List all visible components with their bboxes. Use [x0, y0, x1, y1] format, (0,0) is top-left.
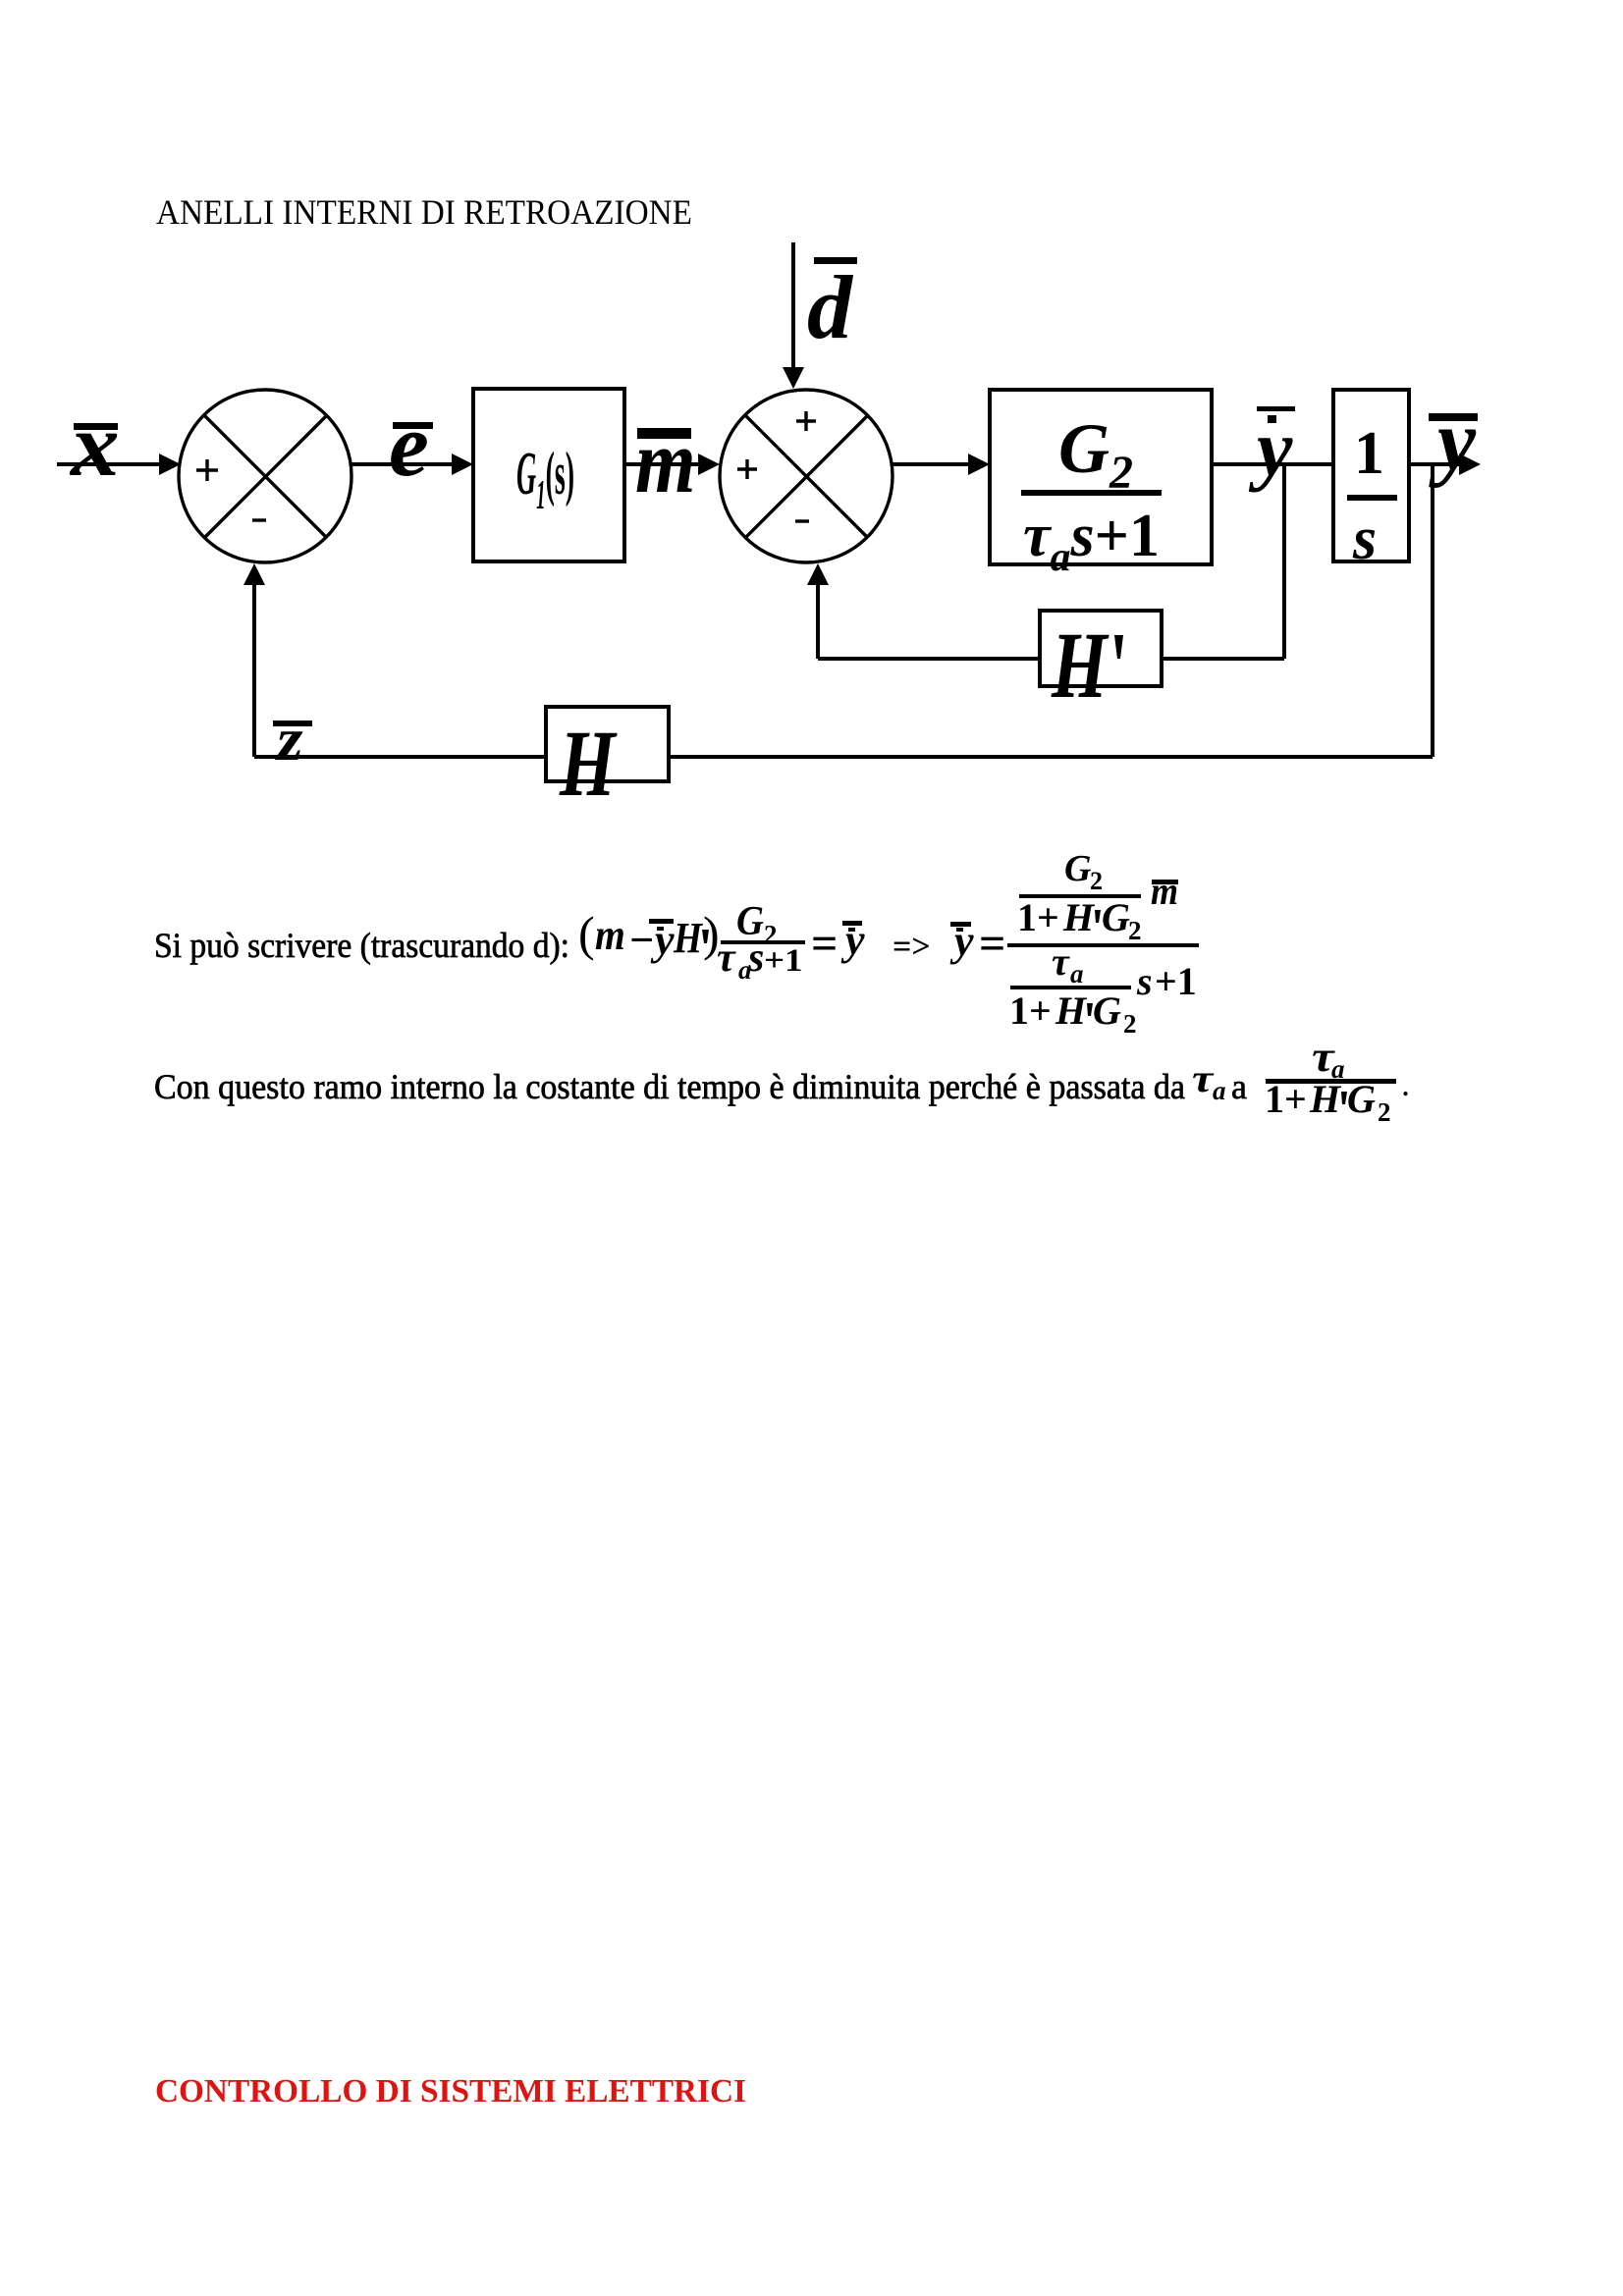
summing junction S1 [179, 390, 352, 562]
block H' [1040, 611, 1162, 686]
eq1 ydotbar 2 [840, 916, 865, 964]
svg-text:s: s [1352, 506, 1377, 572]
wire: x input arrow into S1 [57, 454, 181, 475]
wire: H' tap vertical [1282, 464, 1286, 659]
label x-bar [69, 395, 120, 495]
svg-text:τ: τ [1052, 939, 1070, 984]
svg-text:z: z [275, 707, 303, 774]
wire: output y [1409, 454, 1481, 475]
wire: S2 to G2 [893, 454, 990, 475]
svg-text:2: 2 [1378, 1097, 1391, 1127]
svg-text:s: s [1136, 959, 1153, 1003]
wire: arrow into S2 bottom [807, 563, 829, 659]
svg-text:H: H [673, 914, 703, 961]
svg-text:a: a [1070, 959, 1084, 988]
svg-text:m: m [595, 912, 625, 959]
label e-bar [389, 395, 433, 495]
svg-text:Si può scrivere (trascurando d: Si può scrivere (trascurando d): [154, 926, 569, 965]
svg-text:a: a [1231, 1067, 1247, 1106]
svg-text:y: y [1429, 394, 1477, 489]
svg-text:τ: τ [717, 935, 736, 981]
summing junction S2 [720, 390, 893, 562]
eq1 fraction den [717, 935, 803, 985]
integrator bar [1347, 495, 1397, 501]
S2 plus left [737, 459, 757, 479]
svg-text:d: d [807, 257, 854, 357]
svg-text:2: 2 [1090, 867, 1103, 895]
wire: outer feedback horizontal [254, 755, 1433, 759]
eq1 ydotbar 1 [649, 916, 675, 964]
eq1 fraction bar [721, 940, 805, 944]
wire: d input arrow into S2 top [783, 242, 804, 389]
block G1 [473, 389, 624, 561]
final fraction denominator [1265, 1077, 1391, 1127]
svg-text:a: a [1213, 1076, 1226, 1105]
eq1 fraction G2 num [736, 898, 778, 949]
block integrator 1/s [1333, 390, 1409, 561]
svg-text:.: . [1401, 1064, 1410, 1103]
big fraction numerator m-bar [1151, 870, 1178, 913]
G2 fraction bar [1021, 490, 1162, 496]
svg-text:1+: 1+ [1265, 1077, 1307, 1121]
svg-text:H: H [1309, 1077, 1342, 1121]
svg-text:e: e [389, 395, 429, 495]
wire: arrow into S1 bottom [243, 563, 265, 757]
label m-bar [635, 412, 696, 512]
wire: m from G1 to S2 [624, 454, 720, 475]
wire: outer tap vertical [1431, 464, 1434, 757]
svg-text:Con questo ramo interno la cos: Con questo ramo interno la costante di t… [154, 1067, 1185, 1106]
S1 minus [252, 518, 266, 521]
svg-text:y: y [1248, 403, 1293, 493]
svg-text:=: = [979, 918, 1005, 970]
S2 plus top [796, 411, 816, 431]
svg-text:1+: 1+ [1009, 988, 1052, 1033]
svg-text:G: G [1102, 895, 1130, 939]
eq1 ydotbar 3 [949, 917, 974, 965]
svg-text:H: H [559, 713, 618, 817]
S2 cross [745, 415, 868, 538]
S1 plus [196, 459, 218, 481]
final fraction numerator tau_a [1312, 1034, 1345, 1084]
S2 minus bottom [795, 519, 809, 522]
eq1 H prime [673, 914, 709, 961]
big fraction denominator: tau_a over 1+H'G2, then s+1 [1052, 939, 1084, 988]
svg-text:H: H [1062, 895, 1096, 939]
svg-text:G: G [1347, 1077, 1376, 1121]
svg-text:ANELLI INTERNI DI RETROAZIONE: ANELLI INTERNI DI RETROAZIONE [156, 192, 692, 232]
wire: e from S1 to G1 [352, 454, 473, 475]
S1 cross [204, 415, 327, 538]
svg-text:=>: => [893, 929, 931, 965]
tau_a inline [1192, 1057, 1226, 1105]
svg-text:1+: 1+ [1017, 895, 1059, 939]
wire: H' feedback horizontal [818, 657, 1284, 661]
svg-text:G: G [1064, 848, 1092, 889]
svg-text:x: x [69, 395, 120, 495]
svg-text:H: H [1051, 614, 1109, 719]
svg-text:2: 2 [1128, 916, 1142, 945]
svg-text:G1(s): G1(s) [516, 441, 574, 518]
svg-text:H: H [1055, 988, 1088, 1033]
label y-bar output [1429, 394, 1478, 489]
block G2 [990, 390, 1212, 564]
svg-text:+1: +1 [764, 942, 803, 979]
svg-text:2: 2 [1123, 1009, 1137, 1039]
svg-text:τ: τ [1192, 1057, 1215, 1100]
block H [546, 707, 669, 781]
svg-text:s: s [747, 935, 764, 981]
big fraction main bar [1007, 943, 1199, 947]
svg-text:CONTROLLO DI SISTEMI ELETTRICI: CONTROLLO DI SISTEMI ELETTRICI [155, 2073, 746, 2109]
svg-text:τas+1: τas+1 [1023, 503, 1160, 580]
svg-text:1: 1 [1354, 420, 1384, 487]
label z-bar [273, 707, 312, 774]
svg-text:m: m [1151, 870, 1178, 913]
svg-text:(: ( [578, 906, 595, 961]
final fraction bar [1266, 1079, 1396, 1084]
big fraction numerator: G2 over 1+H'G2 [1064, 848, 1103, 895]
wire: G2 to integrator [1212, 462, 1333, 466]
svg-text:+1: +1 [1155, 959, 1197, 1003]
label ydot-bar [1248, 403, 1295, 493]
label d-bar [807, 257, 857, 357]
svg-text:=: = [811, 918, 838, 970]
svg-text:m: m [635, 412, 696, 512]
svg-text:G: G [1093, 988, 1121, 1033]
H' label [1051, 614, 1123, 719]
